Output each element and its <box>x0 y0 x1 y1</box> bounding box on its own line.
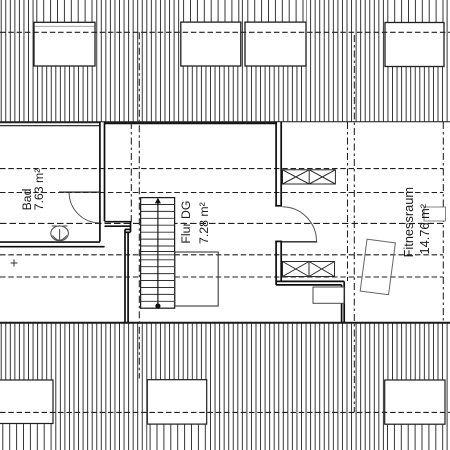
door Fitnessraum: leaf <box>282 241 318 243</box>
room label Bad <box>20 169 46 211</box>
dashed roof height line y277 <box>0 276 443 278</box>
svg-text:Flur DG: Flur DG <box>179 201 193 244</box>
corridor top wall line <box>104 122 277 124</box>
door Bad: swing arc <box>69 193 99 223</box>
shaft upper (crossed boxes) <box>283 170 336 184</box>
svg-text:14.76 m²: 14.76 m² <box>417 203 432 254</box>
svg-text:Fitnessraum: Fitnessraum <box>401 187 416 257</box>
eaves line top <box>0 121 450 123</box>
room label Fitnessraum <box>401 187 432 257</box>
wall: Bad east + corridor west (stepped) <box>100 122 131 323</box>
dash-dot vertical x347 <box>347 122 349 281</box>
dashed axis line bottom band <box>0 411 450 413</box>
roof window D1 <box>34 22 95 66</box>
wall: Fitnessraum west <box>275 122 344 323</box>
dashed axis line top band <box>0 31 450 33</box>
roof window D2 <box>181 22 241 66</box>
wall: Bad north <box>0 123 101 126</box>
roof window D4 <box>385 23 444 67</box>
dashed roof height line y192 <box>0 192 443 194</box>
dashed roof height line y255 <box>0 254 443 256</box>
door Fitnessraum: swing arc <box>282 207 316 242</box>
dashed roof height line y168 <box>0 168 443 170</box>
dash-dot vertical x139 <box>138 32 140 378</box>
cross marker <box>11 260 18 267</box>
door Bad: leaf <box>59 191 100 193</box>
dash-dot vertical x443 <box>442 122 444 322</box>
room label Flur DG <box>179 201 211 244</box>
dashed ridge line y223 <box>0 222 443 224</box>
svg-text:7.28 m²: 7.28 m² <box>197 202 211 244</box>
roof window D5 <box>0 380 53 424</box>
roof window D6 <box>147 380 206 424</box>
roof window D7 <box>385 380 445 424</box>
shaft lower (crossed boxes) <box>283 262 335 277</box>
dash-dot vertical x354 <box>353 35 355 412</box>
staircase <box>20 122 445 323</box>
roof window D3 <box>245 22 306 66</box>
furniture tilted rect <box>360 239 395 295</box>
roof hatch bottom band <box>1 324 447 450</box>
niche rect below wall <box>313 287 344 303</box>
dash-dot vertical x131 <box>130 122 132 224</box>
roof hatch top band <box>1 0 447 122</box>
wall: Bad south <box>0 242 105 247</box>
stair landing <box>175 252 218 306</box>
svg-text:7.63 m²: 7.63 m² <box>32 169 46 211</box>
radiator niche right <box>424 207 446 221</box>
stair walking line <box>157 201 159 306</box>
WC <box>51 226 69 241</box>
eaves line bottom <box>0 322 450 324</box>
